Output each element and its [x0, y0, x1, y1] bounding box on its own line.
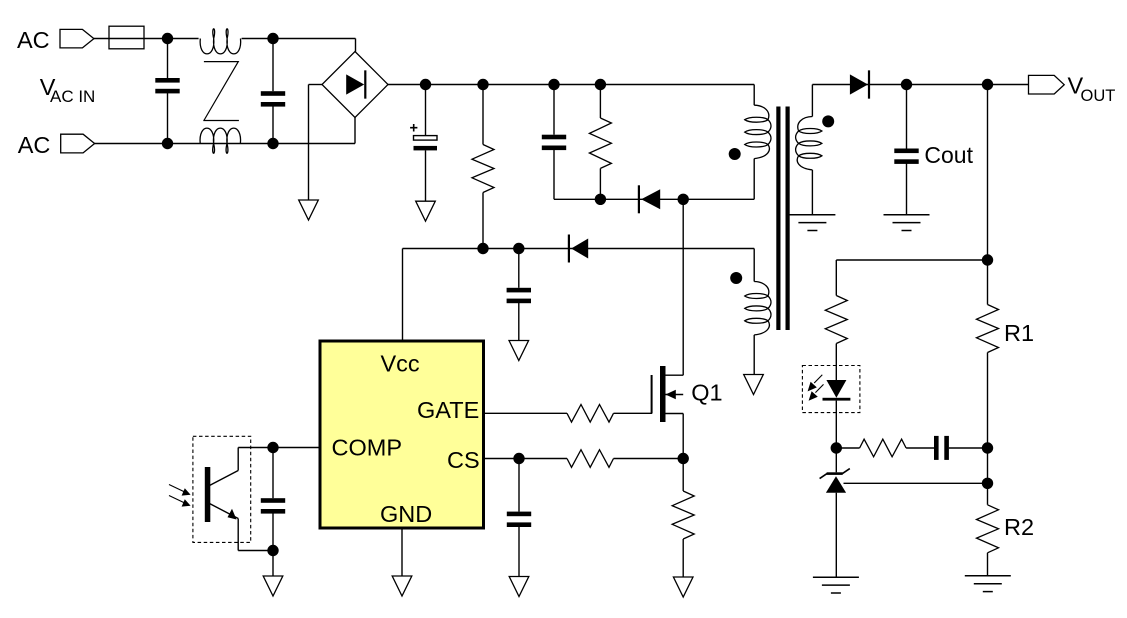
resistor current sense — [672, 491, 694, 539]
junction snubber RC — [595, 194, 606, 205]
diode snubber clamp — [638, 185, 660, 213]
connector AC line 1 — [60, 29, 94, 48]
junction rail/snubber resistor — [595, 79, 606, 90]
wire rail to startup resistor — [482, 85, 484, 145]
wire bulk cap to ground — [425, 150, 427, 201]
wire to TL431 cathode bar — [835, 448, 837, 472]
junction Vcc line/startup R — [477, 243, 488, 254]
wire R2 to ground — [987, 553, 989, 576]
capacitor CS filter — [507, 512, 531, 527]
resistor R1 — [977, 305, 999, 353]
junction rail/Cout — [901, 79, 912, 90]
wire resistor to opto LED — [835, 344, 837, 381]
bridge rectifier BR1 (diamond) — [322, 52, 388, 118]
capacitor Cx2 (X-cap) — [261, 91, 285, 106]
wire from X-cap 1 — [167, 93, 169, 144]
wire TL431 reference to divider — [844, 482, 988, 484]
ground (IC GND) — [392, 576, 412, 596]
junction TL431 cathode — [831, 442, 842, 453]
wire to X-cap 2 — [272, 39, 274, 92]
junction rail/feedback divider — [982, 79, 993, 90]
fuse F1 — [109, 26, 144, 49]
wire drain — [682, 199, 684, 375]
wire AC line 2 — [94, 143, 355, 145]
wire Vcc line to aux winding — [753, 249, 755, 282]
junction R1/R2 divider — [982, 478, 993, 489]
junction COMP/comp cap — [267, 442, 278, 453]
resistor snubber — [589, 118, 611, 168]
wire rail to primary winding — [753, 85, 755, 106]
svg-text:Q1: Q1 — [691, 380, 722, 406]
transformer primary winding — [745, 105, 771, 158]
wire gate resistor to Q1 gate — [614, 412, 653, 414]
wire source to CS node — [682, 414, 684, 459]
LED light emission arrows — [808, 375, 824, 401]
wire Vcc cap to ground — [518, 303, 520, 341]
wire secondary winding to output rail — [811, 85, 813, 117]
ground (TL431) — [813, 577, 859, 593]
svg-text:GND: GND — [380, 501, 432, 527]
ground (R2) — [965, 576, 1011, 592]
wire rail to snubber resistor — [599, 85, 601, 119]
wire TL431 anode to ground — [835, 493, 837, 578]
svg-text:AC: AC — [18, 132, 51, 158]
wire Vout down to R1 — [987, 85, 989, 305]
svg-text:R2: R2 — [1004, 514, 1034, 540]
ground (COMP) — [263, 576, 283, 596]
wire to CS cap — [518, 459, 520, 512]
svg-text:OUT: OUT — [1081, 87, 1116, 105]
transistor Q1 (power MOSFET) — [652, 366, 684, 422]
phototransistor light arrows — [169, 485, 191, 507]
wire startup resistor to Vcc line — [482, 193, 484, 249]
wire rail to snubber cap — [553, 85, 555, 135]
polarity dot auxiliary — [730, 272, 742, 284]
wire to bulk cap — [425, 85, 427, 136]
diode aux rectifier — [568, 235, 588, 263]
svg-text:GATE: GATE — [417, 397, 479, 423]
+ polarity mark of bulk capacitor — [410, 124, 417, 132]
capacitor snubber — [542, 135, 566, 150]
wire AC line 1 to choke — [94, 38, 199, 40]
ground (bridge negative) — [299, 200, 319, 220]
wire sense resistor to ground — [682, 539, 684, 577]
svg-text:Vcc: Vcc — [381, 351, 420, 377]
ground (aux winding) — [744, 375, 764, 395]
resistor startup (rail to Vcc) — [472, 145, 494, 193]
capacitor Vcc filter — [507, 288, 531, 303]
ground (secondary return) — [789, 215, 835, 231]
junction Vout sense tap — [982, 254, 993, 265]
diode output rectifier — [850, 70, 870, 98]
junction rail/startup resistor — [477, 79, 488, 90]
resistor gate drive — [567, 405, 614, 423]
diode inside bridge BR1 — [346, 70, 366, 98]
capacitor COMP — [261, 498, 285, 513]
connector V_OUT — [1029, 75, 1065, 94]
wire primary winding to drain node — [753, 159, 755, 200]
wire CS pin — [485, 458, 567, 460]
wire Vcc supply line — [403, 248, 755, 250]
polarity dot secondary — [822, 115, 834, 127]
wire to Cout — [906, 85, 908, 149]
svg-text:AC: AC — [17, 27, 50, 53]
optocoupler LED — [823, 380, 851, 401]
optocoupler phototransistor enclosure (dashed) — [193, 436, 251, 542]
junction rail/bulk cap — [420, 79, 431, 90]
resistor compensation — [860, 439, 907, 457]
junction emitter/ground net — [267, 545, 278, 556]
wire to COMP cap — [272, 448, 274, 499]
wire CS resistor to source — [614, 458, 684, 460]
wire to Vcc cap — [518, 249, 520, 288]
ground (CS cap) — [509, 577, 529, 597]
svg-text:AC IN: AC IN — [50, 87, 95, 106]
wire output rail — [812, 84, 1028, 86]
wire down to IC Vcc pin — [402, 249, 404, 340]
junction Vcc line/Vcc cap — [513, 243, 524, 254]
junction AC1/Cx1 — [162, 33, 173, 44]
junction divider/compensation — [982, 442, 993, 453]
wire aux winding to ground — [753, 335, 755, 375]
resistor R2 — [977, 505, 999, 553]
capacitor compensation (series) — [934, 436, 949, 460]
ground (Vcc cap) — [509, 341, 529, 361]
wire GATE pin to gate resistor — [485, 412, 567, 414]
wire drain node to primary — [683, 198, 754, 200]
inductor L1b (common-mode choke lower winding) — [200, 128, 241, 153]
wire to sense resistor — [682, 459, 684, 492]
resistor CS filter — [567, 450, 614, 468]
wire down to LED series resistor — [835, 260, 837, 296]
capacitor Cx1 (X-cap) — [155, 78, 179, 93]
junction AC2/Cx1 — [162, 138, 173, 149]
junction AC2/Cx2 — [267, 138, 278, 149]
op-amp/controller IC U1 (PWM controller) — [320, 341, 484, 528]
transformer auxiliary winding — [745, 282, 771, 335]
wire bridge negative stub — [309, 84, 323, 86]
wire GND pin to ground — [401, 530, 403, 577]
transformer T1 core — [776, 107, 789, 331]
junction CS/filter cap — [513, 453, 524, 464]
wire bridge bottom corner to AC line 2 — [354, 118, 356, 144]
wire snubber resistor down — [599, 168, 601, 199]
resistor LED series — [825, 296, 847, 344]
wire from X-cap 2 — [272, 106, 274, 143]
junction source/sense resistor — [678, 453, 689, 464]
junction rail/snubber cap — [548, 79, 559, 90]
ground (bulk cap) — [416, 201, 436, 221]
wire to X-cap 1 — [167, 39, 169, 79]
wire COMP pin to optocoupler — [238, 447, 318, 449]
wire feedback tap — [836, 259, 987, 261]
wire snubber bottom line — [554, 198, 683, 200]
svg-text:Cout: Cout — [924, 142, 973, 168]
wire CS cap to ground — [518, 527, 520, 577]
capacitor C1 bulk electrolytic — [414, 136, 438, 151]
transformer secondary winding — [796, 117, 822, 170]
TL431 shunt regulator U3 — [820, 469, 850, 493]
svg-text:CS: CS — [447, 447, 480, 473]
wire secondary winding to ground — [811, 170, 813, 215]
wire Cout to ground — [906, 164, 908, 215]
polarity dot primary — [729, 148, 741, 160]
wire R1 to R2 — [987, 353, 989, 505]
optocoupler phototransistor U2 — [205, 448, 273, 551]
wire compensation C to divider — [949, 447, 988, 449]
wire bridge negative to ground — [308, 85, 310, 201]
capacitor Cout — [894, 149, 918, 164]
svg-text:R1: R1 — [1004, 320, 1034, 346]
wire to compensation resistor — [841, 447, 860, 449]
junction AC1/Cx2 — [267, 33, 278, 44]
wire compensation R to C — [906, 447, 934, 449]
wire LED cathode to TL431 — [835, 401, 837, 448]
wire choke to bridge (top) — [242, 38, 356, 40]
inductor L1a (common-mode choke upper winding) — [200, 29, 241, 54]
wire DC bus rail — [388, 84, 754, 86]
ground (sense resistor) — [673, 577, 693, 597]
connector AC line 2 — [61, 134, 95, 153]
wire COMP cap to ground — [272, 513, 274, 576]
svg-text:COMP: COMP — [332, 434, 403, 460]
wire down to bridge top corner — [355, 39, 357, 52]
optocoupler LED enclosure (dashed) — [802, 366, 860, 413]
ground (Cout) — [884, 215, 930, 231]
common-mode choke core (Z symbol) — [203, 62, 239, 121]
wire snubber cap down — [553, 150, 555, 200]
junction drain node — [678, 194, 689, 205]
